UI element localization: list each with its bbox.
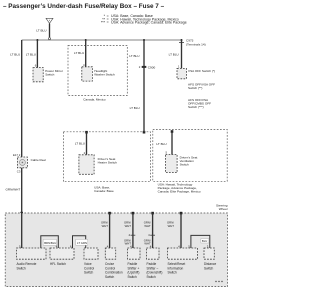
svg-text:Switch: Switch — [17, 266, 27, 270]
svg-text:Switch (***): Switch (***) — [188, 105, 204, 109]
svg-text:Switch: Switch — [105, 275, 115, 279]
svg-text:Cable Reel: Cable Reel — [31, 158, 47, 162]
svg-text:LT BLU: LT BLU — [130, 106, 140, 110]
svg-text:LT BLU: LT BLU — [36, 29, 46, 33]
svg-text:LT BLU: LT BLU — [169, 52, 179, 56]
svg-text:GRN/WHT: GRN/WHT — [6, 187, 21, 191]
svg-text:– Passenger’s Under-dash Fuse/: – Passenger’s Under-dash Fuse/Relay Box … — [3, 3, 165, 10]
svg-text:LT BLU: LT BLU — [156, 142, 166, 146]
svg-text:Switch: Switch — [168, 271, 178, 275]
svg-text:Canada: Elite Package, Mexico: Canada: Elite Package, Mexico — [158, 189, 201, 193]
svg-text:BRN/BLU: BRN/BLU — [44, 241, 56, 245]
svg-text:Wheel: Wheel — [219, 207, 228, 211]
svg-text:USA: Advance Package, Canada:: USA: Advance Package, Canada: Elite Pack… — [111, 21, 187, 25]
svg-text:Heater Switch: Heater Switch — [98, 161, 118, 165]
svg-text:LT BLU: LT BLU — [129, 54, 139, 58]
svg-text:(Terminals 14): (Terminals 14) — [186, 42, 206, 46]
svg-text:WHT: WHT — [144, 224, 151, 228]
svg-text:Switch (**): Switch (**) — [188, 86, 202, 90]
svg-text:LT BLU: LT BLU — [10, 53, 20, 57]
svg-text:HFL Switch: HFL Switch — [50, 262, 66, 266]
svg-text:VSA OFF Switch (*): VSA OFF Switch (*) — [188, 69, 215, 73]
svg-text:E17 2: E17 2 — [13, 153, 21, 157]
svg-text:Switch: Switch — [45, 72, 54, 76]
svg-text:BLU: BLU — [202, 239, 207, 243]
svg-text:WHT: WHT — [168, 224, 175, 228]
svg-text:Canada, Mexico: Canada, Mexico — [83, 98, 106, 102]
svg-text:Canada: Base: Canada: Base — [94, 189, 114, 193]
svg-text:LT BLU: LT BLU — [26, 53, 36, 57]
svg-text:Switch: Switch — [204, 266, 214, 270]
svg-text:=: = — [107, 21, 109, 25]
svg-text:Switch: Switch — [147, 275, 157, 279]
svg-text:WHT: WHT — [125, 224, 132, 228]
svg-text:Washer Switch: Washer Switch — [94, 72, 115, 76]
svg-text:Switch: Switch — [128, 275, 138, 279]
svg-text:***: *** — [101, 21, 106, 25]
svg-text:LT BLU: LT BLU — [75, 141, 85, 145]
svg-text:C900: C900 — [148, 65, 156, 69]
svg-text:Switch: Switch — [84, 271, 94, 275]
svg-text:C3: C3 — [17, 169, 21, 173]
svg-text:WHT: WHT — [102, 224, 109, 228]
svg-text:Switch: Switch — [180, 163, 189, 167]
svg-text:LT GRN: LT GRN — [77, 241, 87, 245]
svg-text:LT BLU: LT BLU — [74, 51, 84, 55]
